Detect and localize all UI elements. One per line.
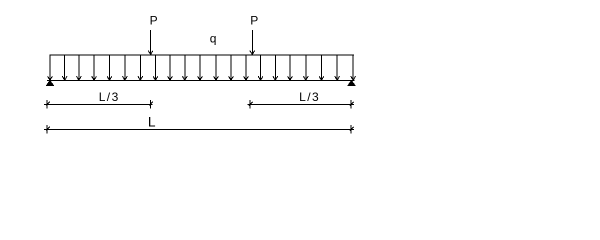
load arrow 19 [319,55,324,80]
support B (right pin) [348,81,355,86]
load arrow 21 [351,55,356,80]
distributed load top line [50,54,355,56]
force P1 arrow [148,30,153,54]
load arrow 11 [198,55,203,80]
svg-text:L/3: L/3 [99,90,120,104]
svg-text:P: P [250,14,258,28]
load arrow 16 [273,55,278,80]
dimension line L/3 left [44,103,153,105]
load arrow 2 [62,55,67,80]
load arrow 6 [123,55,128,80]
dimension tick left of L/3-left [46,100,50,109]
svg-text:L/3: L/3 [299,90,320,104]
load arrow 15 [258,55,263,80]
load arrow 9 [168,55,173,80]
dimension line L/3 right [248,103,354,105]
dimension tick left of L [46,125,50,134]
load arrow 4 [92,55,97,80]
force P1 label [150,14,158,28]
dimension tick right of L/3-right [350,100,354,109]
load arrow 18 [303,55,308,80]
dimension tick right of L/3-left [149,100,153,109]
force P2 arrow [250,30,255,54]
load arrow 5 [107,55,112,80]
label L/3 right [299,90,320,104]
beam [47,80,355,82]
load arrow 7 [138,55,143,80]
force P2 label [250,14,258,28]
load arrow 17 [288,55,293,80]
load arrow 13 [229,55,234,80]
label L/3 left [99,90,120,104]
svg-text:P: P [150,14,158,28]
load arrow 1 [48,55,53,80]
dimension line L (full span) [44,128,354,130]
load arrow 8 [153,55,158,80]
label L [148,115,156,130]
support A (left pin) [47,81,54,86]
load arrow 12 [214,55,219,80]
load arrow 20 [335,55,340,80]
dimension tick right of L [350,125,354,134]
load arrow 3 [77,55,82,80]
distributed load q label [210,32,217,46]
dimension tick left of L/3-right [249,100,253,109]
load arrow 14 [244,55,249,80]
load arrow 10 [182,55,187,80]
svg-text:q: q [210,32,217,46]
svg-text:L: L [148,115,156,130]
